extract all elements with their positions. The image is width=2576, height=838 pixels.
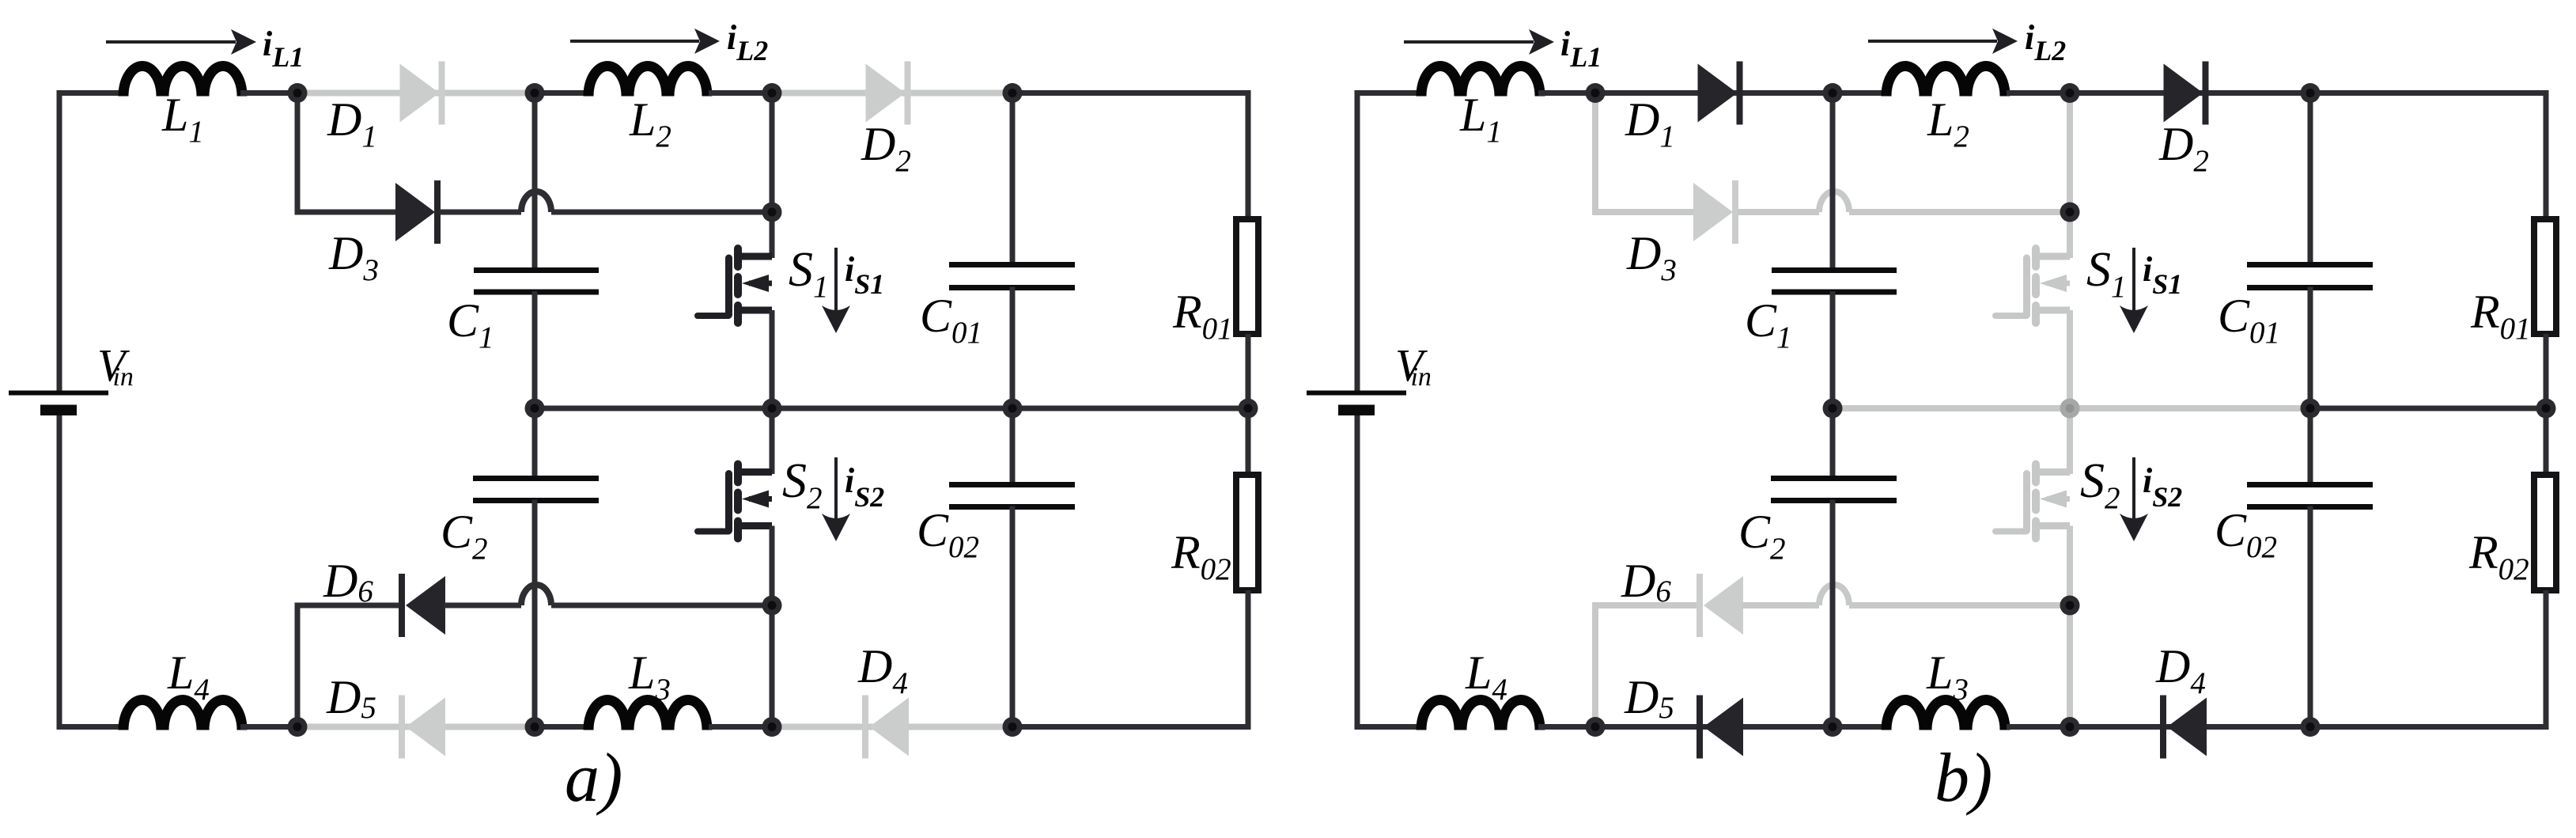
- label D6 fig b: [1621, 555, 1671, 609]
- wire fig a: D6 hop to node n7: [551, 603, 774, 609]
- wire fig b: bus node down to C2: [1830, 408, 1836, 479]
- junction node (2921,516) fig b: [2301, 399, 2321, 419]
- current arrow i_S1 fig a: [822, 248, 850, 333]
- junction node (1578,516) fig a: [1239, 399, 1258, 419]
- label D5 fig b: [1624, 671, 1674, 725]
- junction node (376,918.5) fig a: [288, 717, 308, 737]
- current arrow i_S1 fig b: [2120, 248, 2148, 333]
- wire fig b: C1 down to bus node: [1830, 291, 1836, 408]
- label i_L1 fig a: [263, 25, 304, 73]
- resistor R01 fig a: [1236, 219, 1258, 334]
- caption b): [1935, 740, 1992, 817]
- junction node (2921,117.5) fig b: [2301, 83, 2321, 103]
- wire fig a: D6 row left segment: [295, 603, 401, 609]
- wire fig b: C02 down to bottom row: [2308, 506, 2313, 727]
- wire fig b: node n8 through D4 to C02 column: [2070, 724, 2312, 730]
- wire fig a: node n6 through D5 to C2 column: [297, 724, 536, 730]
- label D1 fig b: [1625, 93, 1675, 154]
- label S1 fig a: [789, 243, 829, 304]
- current arrow i_L2 fig a: [570, 28, 720, 54]
- label L3 fig b: [1926, 647, 1969, 707]
- label L1 fig b: [1459, 89, 1502, 149]
- diode D5 fig a: [399, 696, 445, 759]
- wire fig a: battery - down to bottom corner: [57, 415, 62, 730]
- current arrow i_L1 fig a: [106, 29, 256, 55]
- wire fig b: node n2 to L2: [1833, 90, 1883, 96]
- wire fig a: node n2 down to C1: [532, 93, 538, 271]
- label L4 fig a: [167, 647, 210, 707]
- label C01 fig b: [2218, 290, 2280, 350]
- junction node (376,117.5) fig a: [288, 83, 308, 103]
- wire fig b: D3 row left segment: [1593, 209, 1699, 215]
- battery V_in fig a: [9, 393, 108, 416]
- junction node (976,918.5) fig a: [762, 717, 782, 737]
- junction node (2317,918.5) fig b: [1823, 717, 1843, 737]
- wire fig b: left vertical from top corner to battery +: [1355, 90, 1360, 391]
- wire fig b: node n1 down to D3 row: [1592, 93, 1598, 215]
- wire fig a: node n7 down to bottom row: [770, 605, 775, 727]
- wire fig a: middle bus from C01 column to R column: [1012, 406, 1251, 411]
- label L4 fig b: [1465, 647, 1507, 707]
- wire hop over C2 column in D6 row fig a: [521, 585, 551, 605]
- inductor L2 fig a: [588, 66, 707, 97]
- wire fig a: C2 down to bottom row: [532, 500, 538, 730]
- junction node (1280,117.5) fig a: [1003, 83, 1023, 103]
- label S2 fig a: [782, 454, 823, 515]
- junction node (676,117.5) fig a: [525, 83, 545, 103]
- wire fig a: R02 down to bottom-right corner: [1246, 590, 1251, 730]
- wire fig a: node n1 down to D3 row: [295, 93, 301, 215]
- label D6 fig a: [323, 555, 373, 609]
- wire fig b: L1 to node n1: [1538, 90, 1597, 96]
- wire fig a: middle bus from C column to C01 column: [535, 406, 1014, 411]
- inductor L2 fig b: [1886, 66, 2005, 97]
- junction node (1280,516) fig a: [1003, 399, 1023, 419]
- wire fig b: bus node down to C02: [2308, 408, 2313, 485]
- wire fig b: node n2 down to C1: [1830, 93, 1836, 271]
- wire fig b: L2 to node n3: [2007, 90, 2071, 96]
- label i_S2 fig b: [2143, 461, 2182, 513]
- wire fig a: node n2 to L2: [535, 90, 585, 96]
- wire hop over C1 column in D3 row fig b: [1819, 191, 1849, 212]
- wire fig a: C02 column to bottom-right corner: [1012, 724, 1251, 730]
- label i_S1 fig a: [845, 250, 884, 300]
- wire fig b: hop to node n5: [1849, 209, 2071, 215]
- wire fig b: D6 to hop: [1742, 602, 1819, 609]
- svg-text:b): b): [1935, 740, 1992, 817]
- wire fig a: bottom node n6 up to D6 row: [295, 603, 301, 727]
- wire fig b: node n1 through D1 to node n2: [1595, 90, 1834, 96]
- wire fig b: node n3 through D2 to node n4: [2070, 90, 2312, 96]
- label i_L2 fig a: [727, 18, 768, 66]
- wire fig b: bottom node n6 up to D6 row: [1592, 603, 1598, 727]
- label i_S2 fig a: [845, 461, 884, 513]
- transistor S1 (MOSFET) fig a: [698, 248, 772, 323]
- diode D2 fig b: [2164, 62, 2209, 125]
- inductor L1 fig a: [123, 66, 242, 97]
- junction node (2317,117.5) fig b: [1823, 83, 1843, 103]
- wire fig b: battery - down to bottom corner: [1355, 415, 1360, 730]
- wire fig b: D6 hop to node n7: [1849, 602, 2071, 609]
- label C02 fig b: [2215, 504, 2277, 564]
- wire fig a: L1 to node n1: [240, 90, 299, 96]
- diode D1 fig a: [400, 62, 445, 125]
- junction node (2017,117.5) fig b: [1586, 83, 1606, 103]
- label i_L2 fig b: [2025, 18, 2066, 66]
- svg-text:a): a): [565, 740, 622, 817]
- wire fig a: D3 row left segment: [295, 210, 401, 215]
- wire fig b: bottom row corner to L4: [1355, 724, 1424, 730]
- diode D4 fig a: [862, 696, 909, 759]
- wire fig a: D6 to hop: [444, 603, 521, 609]
- wire fig a: C01 down to bus node: [1010, 287, 1016, 409]
- wire fig b: C2 column to L3: [1833, 724, 1883, 730]
- transistor S1 (MOSFET) fig b: [1995, 248, 2070, 323]
- junction node (2617,516) fig b: [2060, 399, 2080, 419]
- wire fig b: C2 down to bottom row: [1830, 500, 1836, 730]
- junction node (976,765) fig a: [762, 596, 782, 616]
- transistor S2 (MOSFET) fig b: [1995, 465, 2070, 539]
- label i_L1 fig b: [1560, 25, 1602, 73]
- wire fig a: top-right corner down to R01: [1246, 90, 1251, 219]
- wire fig b: middle bus from C column to C01 column: [1833, 405, 2312, 411]
- diode D3 fig b: [1693, 180, 1738, 244]
- wire fig a: node n5 down to S1 drain: [770, 212, 775, 258]
- wire fig a: bus node down to R02: [1246, 408, 1251, 475]
- transistor S2 (MOSFET) fig a: [698, 465, 772, 539]
- wire fig a: S2 source down to node n7: [770, 526, 775, 606]
- diode D3 fig a: [395, 180, 441, 244]
- wire hop over C2 column in D6 row fig b: [1819, 585, 1849, 605]
- label C01 fig a: [920, 290, 982, 350]
- wire fig b: C02 column to bottom-right corner: [2310, 724, 2549, 730]
- wire fig b: R02 down to bottom-right corner: [2544, 590, 2549, 730]
- junction node (2617,765) fig b: [2060, 596, 2080, 616]
- diode D5 fig b: [1697, 696, 1743, 759]
- wire fig a: node n3 through D2 to node n4: [772, 90, 1014, 97]
- capacitor C02 fig a: [949, 485, 1075, 507]
- wire fig b: node n7 down to bottom row: [2067, 605, 2073, 727]
- wire fig b: S2 source down to node n7: [2067, 526, 2073, 606]
- inductor L4 fig b: [1421, 700, 1540, 730]
- label R02 fig a: [1171, 526, 1231, 586]
- wire fig b: D6 row left segment: [1593, 602, 1699, 609]
- junction node (2617,268) fig b: [2060, 203, 2080, 222]
- capacitor C01 fig a: [949, 265, 1075, 288]
- junction node (976,117.5) fig a: [762, 83, 782, 103]
- label S1 fig b: [2086, 243, 2127, 304]
- inductor L3 fig a: [588, 700, 707, 730]
- junction node (976,268) fig a: [762, 203, 782, 222]
- wire fig a: S1 source down to bus: [770, 310, 775, 408]
- wire fig a: L3 to node n8: [709, 724, 774, 730]
- wire fig b: node n3 down to node n5: [2067, 93, 2073, 213]
- label C02 fig a: [917, 504, 979, 564]
- inductor L3 fig b: [1886, 700, 2005, 730]
- wire fig b: node n4 down to C01: [2308, 93, 2313, 266]
- wire fig a: C02 down to bottom row: [1010, 506, 1016, 727]
- capacitor C01 fig b: [2247, 265, 2373, 288]
- label L1 fig a: [161, 89, 204, 149]
- capacitor C1 fig a: [474, 271, 599, 293]
- wire fig b: top row corner to L1: [1355, 90, 1424, 96]
- wire fig a: C2 column to L3: [535, 724, 585, 730]
- label C2 fig b: [1738, 506, 1786, 566]
- capacitor C1 fig b: [1772, 271, 1897, 293]
- label C2 fig a: [441, 506, 488, 566]
- wire fig a: bottom row corner to L4: [57, 724, 126, 730]
- label L2 fig a: [629, 93, 671, 154]
- junction node (2317,516) fig b: [1823, 399, 1843, 419]
- battery V_in fig b: [1307, 393, 1406, 416]
- diode D1 fig b: [1698, 62, 1743, 125]
- wire fig b: node n6 through D5 to C2 column: [1595, 724, 1834, 730]
- wire fig b: bus node down to S2 drain: [2067, 408, 2073, 474]
- diode D6 fig a: [399, 574, 445, 637]
- label L2 fig b: [1927, 93, 1969, 154]
- junction node (676,516) fig a: [525, 399, 545, 419]
- wire fig b: middle bus from C01 column to R column: [2310, 406, 2549, 411]
- label C1 fig b: [1745, 294, 1792, 355]
- label D3 fig b: [1626, 227, 1677, 287]
- wire fig a: node n4 to top-right corner: [1012, 90, 1251, 96]
- diode D4 fig b: [2160, 696, 2207, 759]
- wire fig a: bus node down to C02: [1010, 408, 1016, 485]
- diode D2 fig a: [866, 62, 911, 125]
- label L3 fig a: [628, 647, 671, 707]
- wire fig a: bus node down to C2: [532, 408, 538, 479]
- wire fig a: top row corner to L1: [57, 90, 126, 96]
- current arrow i_S2 fig a: [822, 457, 850, 541]
- diode D6 fig b: [1697, 574, 1743, 637]
- wire fig a: L4 to node n6: [240, 724, 299, 730]
- label R01 fig a: [1172, 286, 1233, 346]
- label D2 fig b: [2158, 118, 2209, 178]
- label D4 fig b: [2155, 640, 2206, 700]
- wire fig b: top-right corner down to R01: [2544, 90, 2549, 219]
- wire fig b: C01 down to bus node: [2308, 287, 2313, 409]
- junction node (3219,516) fig b: [2536, 399, 2556, 419]
- label D3 fig a: [328, 227, 379, 287]
- wire fig b: S1 source down to bus: [2067, 310, 2073, 408]
- wire fig a: node n3 down to node n5: [770, 93, 775, 213]
- current arrow i_S2 fig b: [2120, 457, 2148, 541]
- capacitor C02 fig b: [2247, 485, 2373, 507]
- capacitor C2 fig a: [473, 479, 599, 501]
- junction node (2617,117.5) fig b: [2060, 83, 2080, 103]
- inductor L4 fig a: [123, 700, 242, 730]
- wire fig a: bus node down to S2 drain: [770, 408, 775, 474]
- resistor R01 fig b: [2534, 219, 2556, 334]
- inductor L1 fig b: [1421, 66, 1540, 97]
- wire fig b: D3 to hop: [1738, 209, 1819, 215]
- wire fig a: left vertical from top corner to battery +: [57, 90, 62, 391]
- label V_in fig a: [97, 339, 134, 392]
- current arrow i_L1 fig b: [1404, 29, 1554, 55]
- wire fig a: node n8 through D4 to C02 column: [772, 724, 1014, 730]
- label R01 fig b: [2470, 286, 2531, 346]
- wire fig b: L3 to node n8: [2007, 724, 2071, 730]
- caption a): [565, 740, 622, 817]
- wire fig b: R01 down to bus node: [2544, 334, 2549, 408]
- label S2 fig b: [2080, 454, 2120, 515]
- label D4 fig a: [857, 640, 908, 700]
- resistor R02 fig a: [1236, 475, 1258, 590]
- wire fig a: node n4 down to C01: [1010, 93, 1016, 266]
- wire fig a: node n1 through D1 to node n2: [297, 90, 536, 97]
- label D1 fig a: [327, 93, 377, 154]
- wire fig a: R01 down to bus node: [1246, 334, 1251, 408]
- wire fig a: L2 to node n3: [709, 90, 774, 96]
- junction node (2017,918.5) fig b: [1586, 717, 1606, 737]
- label D2 fig a: [861, 118, 911, 178]
- label V_in fig b: [1395, 339, 1432, 392]
- wire fig b: node n5 down to S1 drain: [2067, 212, 2073, 258]
- wire fig b: L4 to node n6: [1538, 724, 1597, 730]
- wire fig b: node n4 to top-right corner: [2310, 90, 2549, 96]
- label R02 fig b: [2468, 526, 2529, 586]
- wire fig a: hop to node n5: [551, 210, 774, 215]
- junction node (2921,918.5) fig b: [2301, 717, 2321, 737]
- wire fig a: D3 to hop: [440, 210, 521, 215]
- label i_S1 fig b: [2143, 250, 2182, 300]
- current arrow i_L2 fig b: [1868, 28, 2018, 54]
- capacitor C2 fig b: [1771, 479, 1897, 501]
- wire fig a: C1 down to bus node: [532, 291, 538, 408]
- junction node (1280,918.5) fig a: [1003, 717, 1023, 737]
- junction node (2617,918.5) fig b: [2060, 717, 2080, 737]
- wire hop over C1 column in D3 row fig a: [521, 191, 551, 212]
- label C1 fig a: [447, 294, 494, 355]
- junction node (676,918.5) fig a: [525, 717, 545, 737]
- wire fig b: bus node down to R02: [2544, 408, 2549, 475]
- junction node (976,516) fig a: [762, 399, 782, 419]
- label D5 fig a: [326, 671, 376, 725]
- resistor R02 fig b: [2534, 475, 2556, 590]
